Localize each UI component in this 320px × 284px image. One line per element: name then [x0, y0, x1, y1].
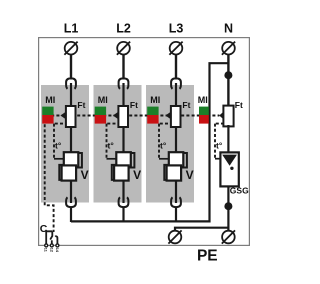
svg-text:MI: MI: [45, 95, 55, 105]
screw terminal PE-left: [169, 231, 182, 244]
wire Ft to varistor (module 2): [122, 126, 124, 153]
wire varistor pin down (module 2): [122, 180, 124, 203]
svg-text:L2: L2: [116, 22, 131, 36]
svg-text:MI: MI: [150, 95, 160, 105]
wire contact to PE bus (module 3): [175, 207, 177, 222]
plug contact bottom (module 3): [171, 197, 181, 207]
wire varistor pin down (module 1): [70, 180, 72, 203]
screw terminal N: [222, 42, 235, 55]
indicator red field (N module): [199, 115, 209, 124]
thermal disconnector Ft (module 3): [171, 106, 181, 127]
screw terminal L3: [170, 42, 183, 55]
indicator green field (module 3): [147, 107, 158, 115]
svg-text:N: N: [224, 22, 233, 36]
wire contact pin to Ft (module 1): [70, 83, 72, 107]
module body 3 (plug-in protection module): [146, 85, 194, 203]
changeover contact common leg: [46, 231, 52, 244]
GSG spark gap triangle: [222, 155, 237, 166]
varistor upper element (module 1): [76, 153, 82, 168]
indicator red field (module 3): [147, 115, 158, 124]
plug contact top (module 2): [119, 78, 129, 88]
wire left PE terminal link: [175, 228, 228, 231]
junction dot above PE terminal: [224, 202, 232, 210]
contact terminal 14: [56, 244, 59, 247]
svg-text:Ft: Ft: [235, 100, 243, 110]
Ft trip arrow (module 1): [60, 112, 66, 120]
wire terminal L1 down: [70, 54, 72, 79]
dashed MI-Ft linkage line: [46, 115, 219, 117]
svg-text:V: V: [133, 168, 141, 182]
screw terminal PE-right: [222, 231, 235, 244]
wire Ft to varistor (module 3): [175, 126, 177, 153]
svg-text:MI: MI: [98, 95, 108, 105]
wire Ft to GSG: [227, 125, 229, 153]
contact terminal 11: [45, 244, 48, 247]
plug contact bottom (module 1): [66, 197, 76, 207]
screw terminal L1: [65, 42, 78, 55]
wire terminal N down: [227, 54, 229, 107]
svg-text:11: 11: [44, 248, 48, 252]
indicator green field (module 1): [42, 107, 53, 115]
changeover contact lever: [50, 231, 52, 239]
plug contact top (module 3): [171, 78, 181, 88]
Ft trip arrow (module 2): [113, 112, 119, 120]
varistor upper element (module 2): [129, 153, 135, 168]
varistor lower element (module 1): [62, 165, 77, 180]
svg-text:12: 12: [49, 248, 53, 252]
module body 2 (plug-in protection module): [94, 85, 142, 203]
indicator green field (N module): [199, 107, 209, 115]
Ft trip arrow (N module): [219, 112, 223, 120]
contact terminal 12: [50, 244, 53, 247]
wire contact pin to Ft (module 3): [175, 83, 177, 107]
wire contact to PE bus (module 2): [122, 207, 124, 222]
enclosure outline: [39, 38, 250, 246]
thermal sensing dashed line t (module 2): [106, 124, 108, 159]
svg-text:t°: t°: [160, 141, 167, 151]
wire contact to PE bus (module 1): [70, 207, 72, 222]
thermal sensing dashed line t (N module): [214, 124, 216, 159]
wire varistor pin down (module 3): [175, 180, 177, 203]
wire terminal L2 down: [122, 54, 124, 79]
indicator green field (module 2): [95, 107, 106, 115]
screw terminal L2: [117, 42, 130, 55]
gas discharge tube GSG body: [220, 152, 238, 186]
indicator red field (module 1): [42, 115, 53, 124]
svg-text:t°: t°: [108, 141, 115, 151]
varistor lower element (module 2): [114, 165, 129, 180]
svg-text:t°: t°: [216, 141, 223, 151]
contact pin 14: [55, 236, 57, 244]
thermal sensing dashed line t (module 1): [53, 124, 55, 159]
varistor upper element (module 3): [181, 153, 187, 168]
varistor lower element (module 3): [167, 165, 182, 180]
wire terminal L3 down: [175, 54, 177, 79]
svg-text:V: V: [81, 168, 89, 182]
svg-text:PE: PE: [197, 248, 218, 265]
dashed linkage to remote contact C: [45, 124, 54, 232]
indicator red field (module 2): [95, 115, 106, 124]
junction dot on N wire: [224, 71, 232, 79]
svg-text:Ft: Ft: [130, 100, 138, 110]
Ft trip arrow (module 3): [165, 112, 171, 120]
svg-text:L3: L3: [169, 22, 184, 36]
svg-text:Ft: Ft: [182, 100, 190, 110]
svg-text:t°: t°: [55, 141, 62, 151]
GSG electrode dot: [230, 167, 233, 170]
plug contact bottom (module 2): [119, 197, 129, 207]
svg-text:GSG: GSG: [230, 186, 249, 196]
thermal disconnector Ft (module 1): [66, 106, 76, 127]
wire Ft to varistor (module 1): [70, 126, 72, 153]
branch wire N to varistor bus: [210, 63, 229, 222]
svg-text:V: V: [186, 168, 194, 182]
thermal sensing dashed line t (module 3): [158, 124, 160, 159]
svg-text:L1: L1: [64, 22, 79, 36]
svg-text:MI: MI: [198, 95, 208, 105]
module body 1 (plug-in protection module): [41, 85, 89, 203]
thermal disconnector Ft (module 2): [118, 106, 128, 127]
wire GSG to PE terminal: [227, 186, 229, 230]
wire contact pin to Ft (module 2): [122, 83, 124, 107]
contact pin 12: [51, 240, 53, 244]
svg-text:Ft: Ft: [77, 100, 85, 110]
plug contact top (module 1): [66, 78, 76, 88]
thermal disconnector Ft (N module): [223, 106, 233, 127]
varistor PE bus wire: [71, 220, 210, 222]
